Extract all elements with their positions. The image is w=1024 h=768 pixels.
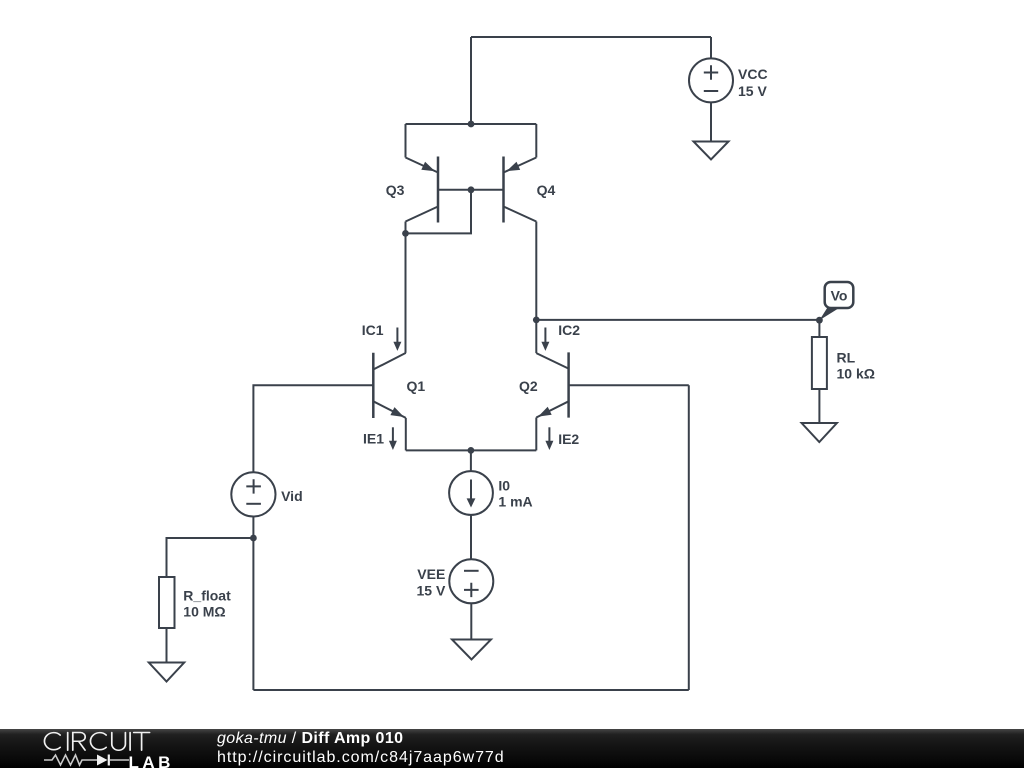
ground below R_float xyxy=(149,663,184,682)
voltage source VEE (minus up) xyxy=(449,559,493,603)
label Q2 xyxy=(519,378,538,394)
node Q3 collector junction xyxy=(402,230,409,237)
svg-text:IC2: IC2 xyxy=(558,322,580,338)
svg-text:Q4: Q4 xyxy=(537,182,556,198)
svg-text:I0: I0 xyxy=(498,478,510,494)
wire I0 to VEE xyxy=(470,515,472,560)
wire mirror rail left drop xyxy=(405,124,407,158)
svg-text:Vid: Vid xyxy=(281,488,303,504)
label Vid xyxy=(281,488,303,504)
wire rail to I0 xyxy=(470,450,472,471)
svg-text:Q1: Q1 xyxy=(407,378,426,394)
label RL 10 kOhm xyxy=(837,350,875,382)
wire RL top stub xyxy=(818,320,820,337)
current source I0 xyxy=(449,471,493,515)
node emitter rail tap xyxy=(468,447,475,454)
wire right riser to Q2 base xyxy=(688,385,690,690)
wire Q2 emitter drop xyxy=(535,418,537,451)
transistor Q4 (PNP) xyxy=(504,157,537,223)
CircuitLab logo wordmark LAB xyxy=(129,753,174,768)
wire bottom rail xyxy=(253,689,688,691)
wire Q2 base to riser xyxy=(569,384,689,386)
CircuitLab logo resistor-diode glyph xyxy=(44,753,130,767)
svg-text:RL: RL xyxy=(837,350,856,366)
wire top rail from mirror tap to VCC xyxy=(471,36,711,38)
schematic URL xyxy=(217,749,505,767)
wire output node to RL xyxy=(536,319,819,321)
wire VCC to ground xyxy=(710,102,712,141)
svg-text:R_float: R_float xyxy=(183,587,231,603)
transistor Q1 (NPN) xyxy=(373,353,406,418)
node base link tap xyxy=(468,186,475,193)
ground below VEE xyxy=(452,640,491,660)
node Vid bottom junction xyxy=(250,535,257,542)
node RL top junction xyxy=(816,317,823,324)
schematic title: goka-tmu / Diff Amp 010 xyxy=(217,730,403,748)
ground below VCC xyxy=(694,142,729,160)
wire emitter rail xyxy=(406,449,537,451)
wire Q1 base to Vid xyxy=(253,385,373,472)
wire R_float to ground xyxy=(166,628,168,663)
resistor R_float xyxy=(159,577,175,628)
CircuitLab logo wordmark CIRCUIT (thin outline letters) xyxy=(42,731,154,753)
wire drop from top rail to mirror rail xyxy=(470,37,472,124)
svg-text:IE2: IE2 xyxy=(558,431,579,447)
svg-text:Q2: Q2 xyxy=(519,378,538,394)
label Q4 xyxy=(537,182,556,198)
wire Vid junction down to bottom rail xyxy=(252,538,254,690)
svg-text:15 V: 15 V xyxy=(416,583,445,599)
wire Q1 emitter drop xyxy=(405,418,407,451)
label current IC2 with arrow xyxy=(541,322,580,351)
wire Q4 collector down to Q2 collector xyxy=(535,222,537,354)
label current IE2 with arrow xyxy=(545,427,579,450)
label Q1 xyxy=(407,378,426,394)
label VCC 15 V xyxy=(738,66,768,99)
ground below RL xyxy=(802,423,837,442)
wire Q3-Q4 base link xyxy=(438,189,504,191)
wire Q3 collector down to Q1 collector xyxy=(405,222,407,353)
voltage source VCC xyxy=(689,58,733,102)
svg-text:Q3: Q3 xyxy=(386,182,405,198)
svg-text:15 V: 15 V xyxy=(738,83,767,99)
label VEE 15 V xyxy=(416,566,445,599)
wire VCC stub xyxy=(710,37,712,58)
wire VEE to ground xyxy=(470,603,472,639)
wire Vid bottom stub xyxy=(252,517,254,539)
svg-text:1 mA: 1 mA xyxy=(498,494,532,510)
node output tap on Q4-Q2 collector line xyxy=(533,317,540,324)
transistor Q2 (NPN) xyxy=(536,352,568,417)
label current IE1 with arrow xyxy=(363,427,397,450)
transistor Q3 (PNP) xyxy=(406,157,439,223)
svg-text:VCC: VCC xyxy=(738,66,768,82)
svg-text:Vo: Vo xyxy=(831,288,848,304)
node mirror rail tap xyxy=(468,121,475,128)
label I0 1 mA xyxy=(498,478,532,510)
svg-text:10 MΩ: 10 MΩ xyxy=(183,604,225,620)
label Q3 xyxy=(386,182,405,198)
wire mirror rail right drop xyxy=(535,124,537,158)
voltage source Vid xyxy=(231,472,275,516)
wire RL bottom stub xyxy=(818,389,820,423)
label R_float 10 MOhm xyxy=(183,587,231,619)
node flag Vo xyxy=(819,282,853,320)
wire junction to R_float xyxy=(167,538,254,577)
svg-text:IC1: IC1 xyxy=(362,322,384,338)
svg-text:IE1: IE1 xyxy=(363,431,384,447)
wire current-mirror emitter rail xyxy=(406,123,537,125)
svg-text:VEE: VEE xyxy=(417,566,445,582)
svg-text:10 kΩ: 10 kΩ xyxy=(837,365,875,381)
wire diode connection base to Q3 collector xyxy=(406,190,472,234)
resistor RL xyxy=(812,337,827,389)
label current IC1 with arrow xyxy=(362,322,402,351)
